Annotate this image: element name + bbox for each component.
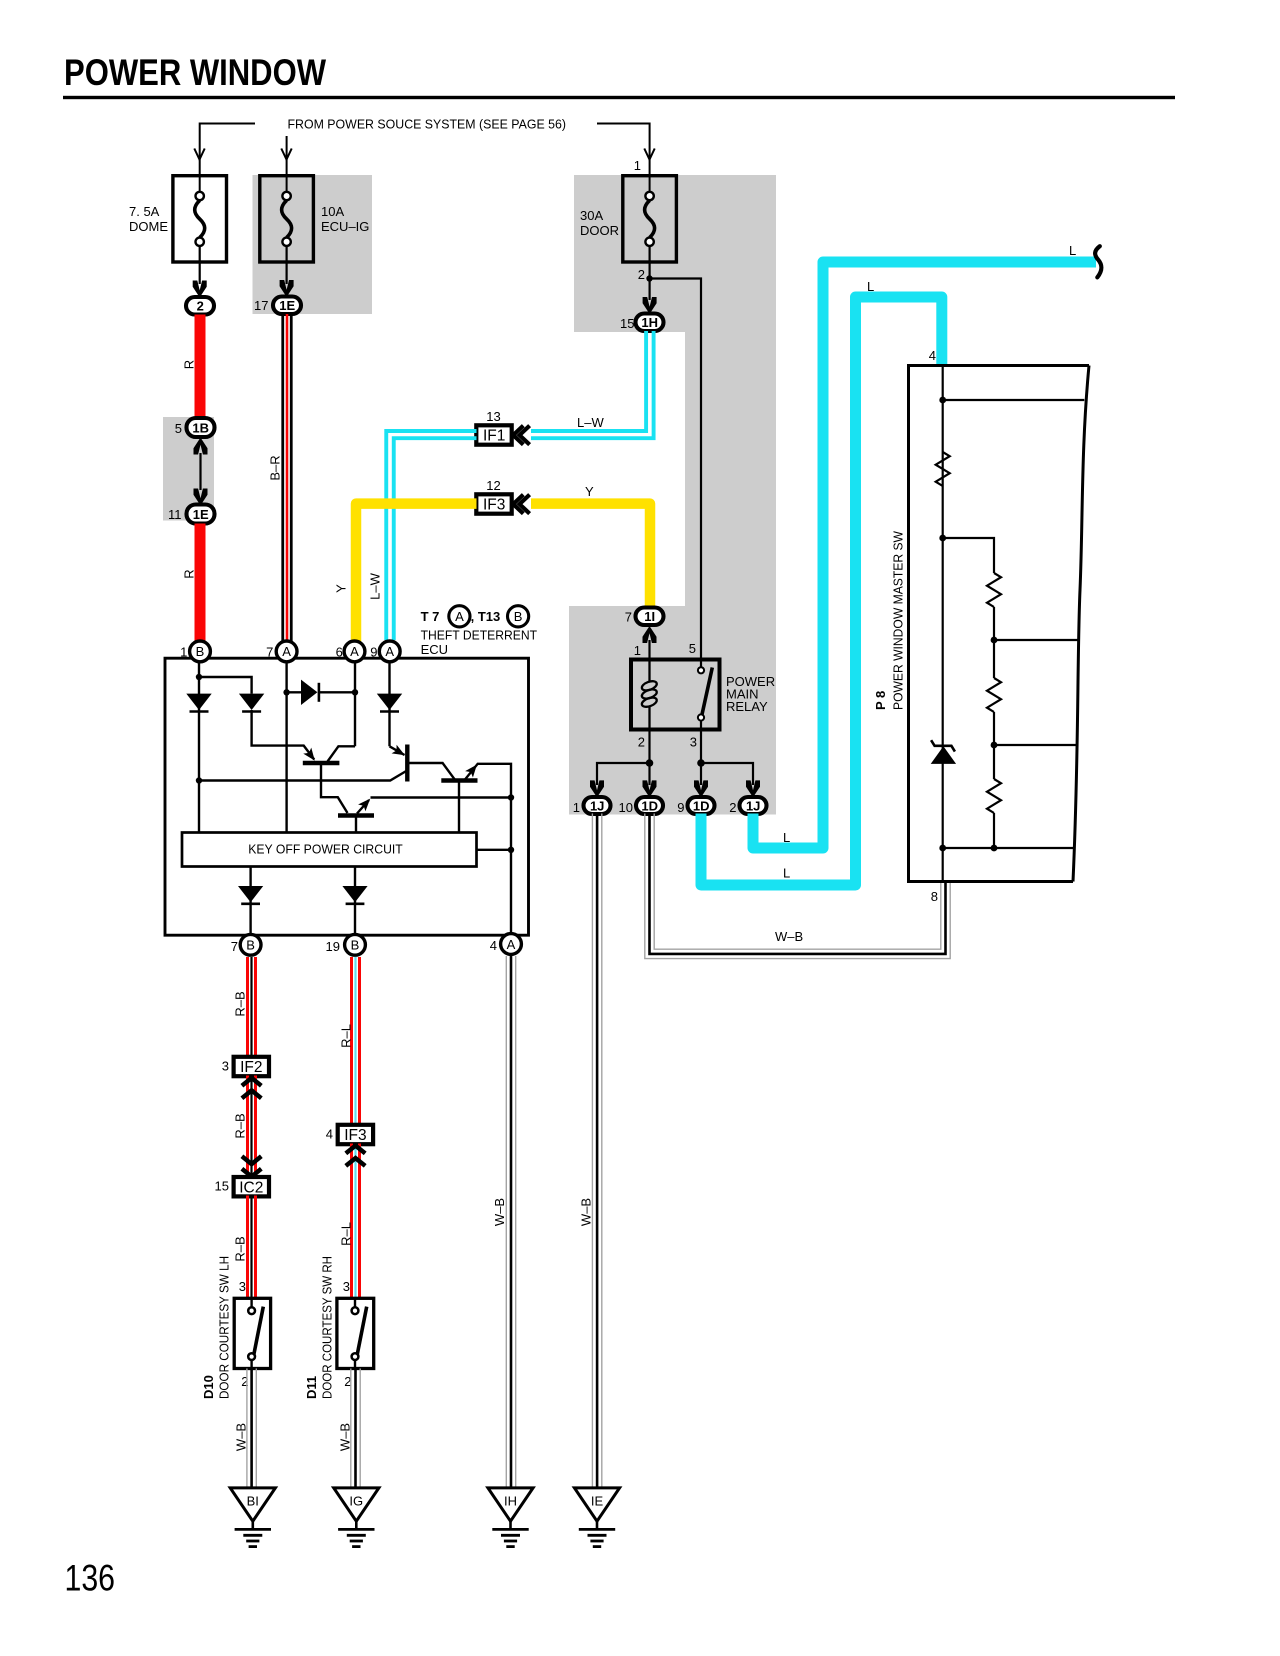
svg-text:IF3: IF3 [344, 1127, 366, 1144]
wire B-R black/red stripe [283, 314, 292, 641]
wire L-W cyan from IF1 to ECU 9A [386, 431, 476, 640]
svg-text:11: 11 [168, 507, 182, 522]
connector arrow into 2 1J [746, 780, 760, 797]
svg-text:IG: IG [349, 1494, 363, 1509]
svg-text:5: 5 [175, 421, 182, 436]
ground IH [488, 1488, 533, 1547]
node 4A Q4 junction [508, 794, 514, 800]
svg-text:Y: Y [585, 484, 594, 499]
svg-text:2: 2 [638, 267, 645, 282]
svg-text:DOOR COURTESY SW RH: DOOR COURTESY SW RH [319, 1256, 334, 1399]
gray panel behind 10A ECU-IG fuse [253, 175, 373, 314]
svg-text:3: 3 [690, 735, 697, 750]
svg-text:R: R [182, 569, 197, 578]
svg-text:1: 1 [634, 158, 641, 173]
gray panel behind 30A DOOR fuse and power main relay [569, 175, 776, 815]
svg-text:T 7: T 7 [421, 609, 440, 624]
svg-text:R–B: R–B [233, 991, 248, 1016]
svg-text:P 8: P 8 [873, 691, 888, 710]
svg-text:B: B [514, 609, 523, 624]
arrow into ECU-IG fuse [281, 149, 291, 160]
svg-text:1D: 1D [641, 798, 658, 813]
node dot mid [939, 535, 946, 542]
svg-text:30A: 30A [580, 208, 603, 223]
wire fuse ECU-IG to connector 1E [286, 246, 288, 284]
resistor R2 master sw [987, 573, 1001, 607]
chevrons of IF1 [513, 426, 529, 445]
svg-text:15: 15 [215, 1179, 229, 1194]
connector 17 1E [254, 297, 301, 315]
ECU internals [199, 661, 511, 934]
svg-text:L: L [867, 279, 874, 294]
wire R red to ECU [195, 524, 206, 641]
svg-text:FROM POWER SOUCE SYSTEM (SEE P: FROM POWER SOUCE SYSTEM (SEE PAGE 56) [288, 117, 567, 132]
svg-text:R–L: R–L [339, 1222, 354, 1246]
wire Q4 vertical to key-off box [355, 817, 357, 833]
node dot R2-R3 [991, 637, 998, 644]
node 1B lower branch [196, 777, 202, 783]
svg-text:POWER WINDOW: POWER WINDOW [64, 52, 326, 93]
label D10 DOOR COURTESY SW LH [201, 1256, 231, 1399]
wire Q3 vertical to key-off box [458, 782, 460, 833]
master sw main vertical from pin 4 [942, 366, 944, 882]
svg-text:7: 7 [231, 939, 238, 954]
diode D5 [238, 886, 263, 904]
connector arrow into 17 1E [280, 280, 294, 297]
wire Y yellow right run to 1I [531, 504, 650, 607]
svg-text:3: 3 [239, 1279, 246, 1294]
svg-text:L: L [1069, 243, 1076, 258]
fuse 10A ECU-IG [260, 176, 314, 262]
diode D4 [377, 694, 402, 712]
wire 6A to Q1 collector [328, 746, 356, 761]
svg-text:8: 8 [931, 889, 938, 904]
wire relay pin2 down [648, 730, 650, 786]
svg-text:D11: D11 [304, 1376, 319, 1399]
svg-text:13: 13 [486, 409, 500, 424]
node at pin2 branch [646, 759, 654, 767]
junction arrow down into 1E [194, 489, 208, 506]
chevrons of IF3 upper [513, 495, 529, 514]
connector arrow into 9 1D [694, 780, 708, 797]
ground IG [334, 1488, 379, 1547]
wire to torn edge [994, 744, 1078, 746]
pin 9 A top connector [370, 641, 400, 662]
wire R-L IF3 to switch D11 [352, 1144, 360, 1299]
connector 9 1D [677, 797, 714, 815]
wire W-B from 10 1D to master switch pin 8 [645, 814, 950, 959]
connector 2 1J [729, 797, 766, 815]
svg-text:4: 4 [929, 348, 936, 363]
svg-text:1B: 1B [192, 421, 209, 436]
svg-text:B: B [246, 938, 255, 953]
connector arrow into 2 [193, 281, 207, 298]
svg-text:A: A [455, 609, 464, 624]
bottom wire to torn edge [943, 847, 1075, 849]
svg-text:B: B [351, 938, 360, 953]
svg-text:A: A [385, 644, 394, 659]
connector 2 [186, 297, 214, 315]
svg-text:KEY OFF POWER CIRCUIT: KEY OFF POWER CIRCUIT [248, 842, 403, 857]
wire branch to 1J left [597, 763, 650, 785]
wire 6A vertical [354, 661, 356, 746]
label D11 DOOR COURTESY SW RH [304, 1256, 334, 1399]
svg-text:1H: 1H [641, 315, 658, 330]
node dot bottom branch [991, 845, 998, 852]
power main relay box [631, 660, 720, 730]
svg-text:A: A [350, 644, 359, 659]
relay switch [698, 660, 712, 730]
svg-text:1: 1 [634, 643, 641, 658]
svg-text:B–R: B–R [268, 455, 283, 480]
wire key-off box to 4A vertical [477, 849, 512, 851]
arrow into DOOR fuse [644, 149, 654, 160]
connector 1 1J [573, 797, 611, 815]
node 1B top branch [196, 674, 202, 680]
wire relay pin3 down [700, 730, 702, 786]
svg-text:R–B: R–B [233, 1236, 248, 1261]
wire L cyan loop from 2 1J to right edge [753, 262, 1096, 848]
svg-text:12: 12 [486, 478, 500, 493]
svg-text:7: 7 [625, 610, 632, 625]
svg-text:D10: D10 [201, 1375, 216, 1399]
svg-text:2: 2 [638, 735, 645, 750]
svg-text:6: 6 [336, 645, 343, 660]
diode D1 [186, 694, 211, 712]
junction arrow up into 1B [194, 438, 208, 455]
wire R-B IC2 to switch D10 [248, 1196, 256, 1299]
resistor R3 master sw [987, 678, 1001, 712]
fuse 7.5A DOME [173, 176, 227, 262]
connector arrow up into 1I [643, 626, 657, 643]
wire Y yellow left run to ECU 6A [356, 504, 477, 644]
svg-text:4: 4 [490, 938, 497, 953]
transistor Q2 [392, 745, 408, 782]
wire fuse DOME to connector 2 [199, 246, 201, 284]
chevrons down above IC2 [242, 1156, 261, 1176]
pin 7 A top connector [266, 641, 297, 662]
wire to torn edge top [943, 399, 1085, 401]
connector IC2 [234, 1177, 269, 1196]
junction wire [199, 453, 201, 490]
svg-text:1J: 1J [746, 798, 760, 813]
door courtesy switch D10 [234, 1298, 270, 1368]
fuse 30A DOOR [623, 176, 677, 262]
wire R red [195, 315, 206, 420]
key off power circuit box [182, 833, 477, 867]
svg-text:9: 9 [677, 800, 684, 815]
wire Q2 base run [199, 770, 407, 780]
svg-text:ECU: ECU [421, 642, 448, 657]
wire D3 connections [287, 691, 355, 693]
wire R-B from ECU 7B to IF2 [248, 957, 256, 1057]
label POWER MAIN RELAY [726, 674, 775, 714]
connector arrow into 15 1H [643, 297, 657, 314]
connector IF3 lower [338, 1125, 373, 1144]
wire D2 to Q1 emitter [252, 710, 315, 760]
wire D6 vertical [354, 867, 356, 935]
wire D5 vertical [249, 867, 251, 935]
svg-text:10: 10 [619, 800, 633, 815]
svg-text:L: L [783, 830, 790, 845]
ECU box [165, 658, 529, 935]
wire feed to ECU-IG fuse [286, 136, 288, 192]
wire 1I to relay [648, 640, 650, 660]
node 6A D3 junction [352, 689, 358, 695]
svg-text:R–L: R–L [339, 1024, 354, 1048]
chevrons up below IF2 [242, 1078, 261, 1098]
svg-text:THEFT DETERRENT: THEFT DETERRENT [421, 628, 538, 643]
svg-text:POWER WINDOW MASTER SW: POWER WINDOW MASTER SW [891, 530, 906, 710]
svg-text:DOOR COURTESY SW LH: DOOR COURTESY SW LH [216, 1256, 231, 1399]
svg-text:5: 5 [689, 641, 696, 656]
pin 4 A bottom connector [490, 934, 522, 955]
svg-text:1E: 1E [193, 507, 209, 522]
svg-text:10A: 10A [321, 204, 344, 219]
gray panel behind junction block connectors 1B/1E [163, 417, 214, 521]
connector IF3 upper [476, 494, 511, 513]
relay coil [641, 660, 658, 730]
connector IF1 [476, 425, 511, 444]
transistor Q1 [303, 748, 340, 764]
svg-text:IC2: IC2 [239, 1179, 263, 1196]
svg-text:IF1: IF1 [483, 428, 505, 445]
wire 1B vertical [198, 661, 200, 833]
svg-text:3: 3 [343, 1279, 350, 1294]
wire fuse DOOR lower stub [648, 246, 650, 300]
pin 6 A top connector [336, 641, 365, 662]
svg-text:L–W: L–W [368, 572, 383, 599]
off-page hook [1095, 246, 1101, 277]
svg-text:1J: 1J [590, 798, 604, 813]
wire branch to D2 [199, 677, 252, 694]
wire to torn edge [994, 639, 1079, 641]
node dot bottom main [939, 845, 946, 852]
svg-text:7: 7 [266, 645, 273, 660]
node dot R3-R4 [991, 742, 998, 749]
ground BI [230, 1488, 275, 1547]
transistor Q3 [441, 761, 480, 780]
pin 1 B top connector [180, 641, 210, 662]
svg-text:IH: IH [504, 1494, 517, 1509]
connector 5 1B [175, 418, 215, 437]
connector 11 1E [168, 505, 215, 524]
svg-text:W–B: W–B [234, 1423, 249, 1451]
wire Q1 collector down and to Q4 base [321, 765, 348, 813]
diode D2 [239, 694, 264, 712]
wire W-B from D10 to ground BI [247, 1369, 256, 1488]
node 2 junction of DOOR fuse [646, 275, 652, 281]
svg-text:L–W: L–W [577, 415, 604, 430]
wire feed to DOOR fuse [597, 124, 650, 193]
door courtesy switch D11 [337, 1298, 374, 1368]
wire Q3 emitter to 4A vertical [465, 764, 511, 934]
connector 10 1D [619, 797, 663, 815]
wire [993, 813, 995, 848]
power window master switch box P8 [909, 364, 1090, 883]
svg-text:DOME: DOME [129, 219, 168, 234]
wire R-L from ECU 19B to IF3 [352, 957, 360, 1125]
zener diode master sw [931, 740, 956, 764]
svg-text:7. 5A: 7. 5A [129, 204, 160, 219]
wire L cyan loop from 9 1D to master switch pin 4 [701, 297, 942, 885]
wire branch to 1J right [701, 763, 753, 785]
svg-text:B: B [196, 644, 205, 659]
transistor Q4 [338, 795, 374, 815]
branch to resistor chain [943, 538, 994, 573]
svg-text:RELAY: RELAY [726, 699, 768, 714]
svg-text:BI: BI [247, 1494, 259, 1509]
svg-text:W–B: W–B [775, 929, 803, 944]
svg-text:IF3: IF3 [483, 497, 505, 514]
chevrons up below IF3 [346, 1146, 365, 1166]
wire [993, 607, 995, 678]
node 7A D3 branch [283, 689, 289, 695]
svg-text:1: 1 [573, 800, 580, 815]
svg-text:, T13: , T13 [471, 609, 501, 624]
svg-text:1: 1 [180, 645, 187, 660]
node at pin3 branch [697, 759, 705, 767]
resistor R4 master sw [987, 779, 1001, 813]
connector 15 1H [620, 314, 663, 332]
wire [993, 712, 995, 779]
theft deterrent ECU title T7 A T13 B [421, 606, 538, 657]
svg-text:A: A [282, 644, 291, 659]
node 4A key-off junction [508, 847, 514, 853]
svg-text:3: 3 [222, 1059, 229, 1074]
svg-text:9: 9 [370, 645, 377, 660]
svg-text:R: R [182, 360, 197, 369]
svg-text:W–B: W–B [338, 1423, 353, 1451]
svg-text:17: 17 [254, 298, 268, 313]
svg-text:15: 15 [620, 316, 634, 331]
pin 19 B bottom connector [326, 934, 366, 955]
svg-text:A: A [507, 937, 516, 952]
node dot top [939, 397, 946, 404]
arrow into DOME fuse [194, 149, 204, 160]
svg-text:136: 136 [65, 1557, 116, 1599]
svg-text:W–B: W–B [492, 1198, 507, 1226]
resistor R1 master sw [936, 452, 950, 486]
svg-text:4: 4 [326, 1127, 333, 1142]
wire W-B from D11 to ground IG [351, 1369, 360, 1488]
wire 9A diagonal to Q2 [390, 746, 405, 755]
label P 8 POWER WINDOW MASTER SW [873, 530, 906, 710]
svg-text:1I: 1I [644, 609, 655, 624]
wire 9A vertical [388, 661, 390, 746]
wire W-B from ECU 4A to ground IH [506, 956, 515, 1487]
ground IE [574, 1488, 619, 1547]
connector arrow into 1 1J [590, 780, 604, 797]
svg-text:1E: 1E [279, 298, 295, 313]
connector arrow into 10 1D [643, 780, 657, 797]
connector 7 1I [625, 608, 664, 626]
svg-text:L: L [783, 866, 790, 881]
svg-text:2: 2 [197, 299, 204, 314]
title underline [63, 96, 1175, 99]
pin 7 B bottom connector [231, 934, 261, 955]
svg-text:IF2: IF2 [240, 1059, 262, 1076]
svg-text:R–B: R–B [233, 1113, 248, 1138]
wire to relay pin 5 [650, 279, 702, 661]
svg-text:2: 2 [729, 800, 736, 815]
svg-text:DOOR: DOOR [580, 223, 619, 238]
connector IF2 [234, 1057, 269, 1076]
svg-text:IE: IE [591, 1494, 604, 1509]
wire feed to DOME fuse [200, 124, 255, 193]
wire Q4 emitter run [357, 798, 511, 814]
diode D6 [342, 886, 367, 904]
svg-text:ECU–IG: ECU–IG [321, 219, 369, 234]
wire Q2 collector to Q3 [407, 763, 454, 779]
wire 7A vertical [285, 661, 287, 833]
wire L-W cyan double from 1H to IF1 [531, 331, 654, 438]
diode D3 horizontal [301, 680, 319, 705]
svg-text:1D: 1D [693, 798, 710, 813]
svg-text:W–B: W–B [579, 1198, 594, 1226]
wire R-B IF2 to IC2 [248, 1076, 256, 1178]
svg-text:Y: Y [334, 584, 349, 593]
wire W-B from 1 1J down to ground IE [592, 814, 601, 1488]
svg-text:19: 19 [326, 939, 340, 954]
